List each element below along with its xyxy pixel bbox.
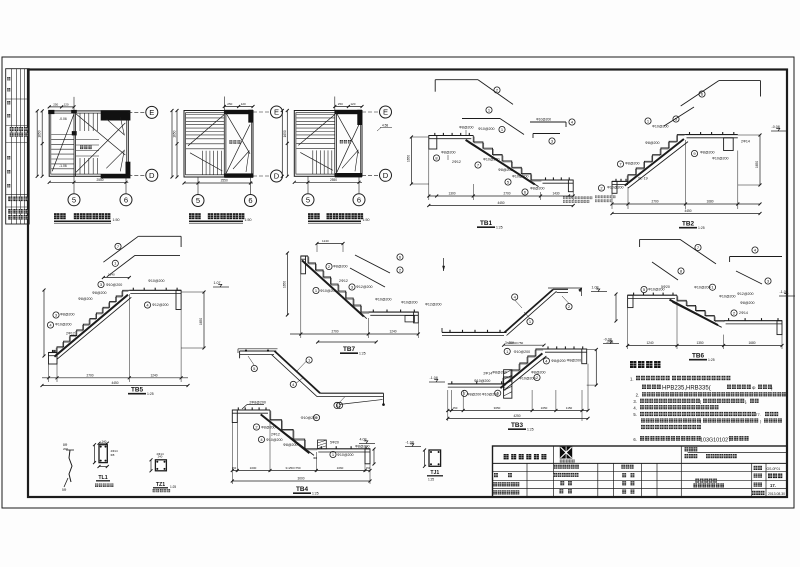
svg-text:1680: 1680	[748, 341, 755, 345]
svg-text:2Φ8@200: 2Φ8@200	[249, 400, 266, 404]
svg-text:E: E	[383, 108, 388, 117]
plan landing lines	[186, 138, 224, 140]
svg-text:Φ8@200: Φ8@200	[467, 392, 482, 396]
plan columns (filled)	[224, 110, 253, 114]
svg-text:5: 5	[72, 195, 76, 204]
svg-text:SL-19: SL-19	[638, 177, 648, 181]
TB6 level mark	[779, 295, 795, 297]
svg-text:-1.06: -1.06	[59, 164, 67, 168]
grid bubble E	[271, 106, 283, 118]
svg-text:Φ10@200: Φ10@200	[55, 323, 72, 327]
svg-text:Φ10@200: Φ10@200	[375, 298, 392, 302]
TB5 rebar diagram lower	[107, 255, 135, 276]
svg-text:1060: 1060	[337, 466, 344, 470]
svg-text:5Φ: 5Φ	[62, 488, 67, 492]
svg-text:1000: 1000	[250, 466, 257, 470]
svg-text:Φ10@200: Φ10@200	[514, 350, 531, 354]
grid line D	[362, 174, 379, 176]
svg-text:-1.08: -1.08	[406, 440, 414, 444]
svg-text:250: 250	[338, 102, 343, 106]
plan treads lower flight	[312, 150, 314, 174]
svg-text:1240: 1240	[108, 273, 115, 277]
plan left dimension	[176, 111, 178, 178]
svg-text:],: ],	[745, 399, 747, 404]
svg-text:Φ8@200: Φ8@200	[530, 187, 545, 191]
svg-text:Φ10@200: Φ10@200	[106, 283, 123, 287]
grid line 5	[73, 176, 75, 193]
plan cross diagonals right room	[337, 114, 359, 154]
svg-text:Φ10@200: Φ10@200	[474, 379, 491, 383]
plan title	[189, 213, 195, 219]
svg-text:103G101027: 103G101027	[700, 437, 731, 443]
TB1 rebar diagram line A	[435, 79, 478, 81]
plan stair divider	[73, 111, 75, 176]
svg-text:1150: 1150	[566, 406, 573, 410]
plan title	[54, 213, 60, 219]
svg-text:2550: 2550	[221, 179, 228, 183]
svg-text:2Φ12: 2Φ12	[452, 160, 461, 164]
svg-text:Φ10@200: Φ10@200	[719, 295, 736, 299]
Z1 bottom dashes	[449, 330, 451, 332]
svg-text:Φ10@200: Φ10@200	[694, 286, 711, 290]
svg-text:Φ8@200: Φ8@200	[625, 162, 640, 166]
title block project name	[695, 479, 699, 483]
TB2 rebar diagram second	[664, 107, 694, 126]
svg-text:1:25: 1:25	[708, 358, 715, 362]
grid line D	[128, 174, 145, 176]
grid line 5	[197, 177, 199, 194]
plan outer walls	[49, 111, 128, 176]
svg-text:Φ8@200: Φ8@200	[567, 358, 582, 362]
notes line 1b	[642, 385, 646, 389]
outer drawing border	[2, 57, 794, 508]
TB1 mid-landing rebar C	[530, 121, 566, 123]
TB3 right dimension	[595, 350, 597, 386]
plan treads left flight upper	[296, 114, 335, 116]
plan bottom dimension	[49, 181, 128, 183]
Z1 top rebar hook	[548, 287, 582, 289]
svg-text:120: 120	[350, 102, 355, 106]
TB4 rebar label top	[247, 404, 264, 406]
section TB7 stair slab	[301, 255, 308, 257]
Z1 callouts	[512, 294, 518, 300]
section TB3 stair slab	[448, 383, 504, 385]
svg-text:120: 120	[64, 102, 69, 106]
svg-text:Φ8@200: Φ8@200	[740, 301, 755, 305]
TB5 left dimension	[43, 290, 45, 356]
detail TJ1 section	[429, 450, 441, 466]
svg-text:1240: 1240	[322, 239, 329, 243]
plan bottom dimension	[184, 182, 253, 184]
svg-text:2550: 2550	[330, 178, 337, 182]
plan columns (filled)	[335, 110, 362, 114]
svg-text:Φ8@200: Φ8@200	[498, 168, 513, 172]
svg-text:2Φ12: 2Φ12	[271, 432, 280, 436]
grid line 5	[307, 176, 309, 193]
binding strip table	[6, 69, 30, 224]
svg-text:D: D	[149, 171, 155, 180]
TB7 base block	[405, 316, 414, 322]
TB1 rebar diagram line B	[462, 118, 500, 120]
grid line E	[253, 111, 270, 113]
svg-text:HPB235,HRB335(: HPB235,HRB335(	[662, 386, 711, 392]
notes line 5c	[641, 425, 645, 429]
svg-text:3×250=750: 3×250=750	[508, 341, 524, 345]
grid line 6	[250, 177, 252, 194]
grid bubble E	[146, 106, 158, 118]
svg-text:1240: 1240	[646, 341, 653, 345]
svg-text:6: 6	[124, 195, 128, 204]
TJ1 level mark	[405, 446, 421, 448]
svg-text:Φ10@200: Φ10@200	[519, 377, 536, 381]
svg-text:2013.08.30: 2013.08.30	[768, 492, 785, 496]
svg-text:4.08: 4.08	[360, 437, 367, 441]
svg-text:Φ10@200: Φ10@200	[266, 438, 283, 442]
TB6 rebar diagram left	[639, 239, 641, 247]
svg-text:Φ10@200: Φ10@200	[483, 158, 500, 162]
landing slab section Z1	[442, 331, 507, 333]
svg-text:TB1: TB1	[480, 220, 493, 227]
TB3 hatched wall	[504, 370, 512, 399]
TB4 hatched block	[318, 440, 327, 449]
svg-text:1650: 1650	[199, 318, 203, 325]
svg-text:1:25: 1:25	[170, 485, 176, 489]
svg-text:1:50: 1:50	[363, 218, 370, 222]
plan treads lower flight	[201, 151, 203, 175]
svg-text:1.: 1.	[630, 376, 634, 381]
svg-text:TB7: TB7	[343, 346, 356, 353]
svg-text:1350: 1350	[696, 341, 703, 345]
svg-text:Φ8@200: Φ8@200	[261, 426, 276, 430]
svg-text:1650: 1650	[755, 161, 759, 168]
svg-text:4450: 4450	[497, 201, 504, 205]
TB4 bottom dimension	[231, 423, 233, 485]
svg-text:D: D	[274, 172, 280, 181]
plan top dimension	[224, 106, 253, 108]
svg-text:Φ12@200: Φ12@200	[356, 285, 373, 289]
svg-text:2700: 2700	[503, 192, 510, 196]
grid bubble 6	[245, 195, 257, 207]
svg-text:1:25: 1:25	[359, 351, 366, 355]
grid bubble 5	[68, 194, 80, 206]
plan landing lines	[76, 139, 99, 141]
svg-text:Φ8: Φ8	[313, 456, 317, 460]
TB6 bottom dimension	[627, 308, 629, 349]
svg-text:-1.08: -1.08	[430, 376, 438, 380]
section TB4 stair slab	[232, 409, 270, 411]
svg-text:Φ8@200: Φ8@200	[645, 141, 660, 145]
svg-text:1:25: 1:25	[698, 226, 705, 230]
section TB6 stair slab	[628, 294, 677, 296]
svg-text:Φ: Φ	[752, 385, 756, 390]
plan flight arrow left	[52, 114, 74, 171]
svg-text:Φ8: Φ8	[111, 453, 115, 457]
svg-text:Φ12@200: Φ12@200	[152, 303, 169, 307]
plan treads left flight upper	[186, 114, 224, 116]
svg-text:-0.08: -0.08	[604, 337, 612, 341]
title block middle labels	[554, 465, 558, 469]
svg-text:Φ8@200: Φ8@200	[492, 371, 507, 375]
TB4 level mark	[359, 443, 375, 445]
grid line 6	[358, 176, 360, 193]
svg-text:2Φ14: 2Φ14	[739, 311, 748, 315]
svg-text:Φ8@200: Φ8@200	[700, 151, 715, 155]
svg-text:1650: 1650	[283, 281, 287, 288]
title block outer	[493, 446, 788, 497]
svg-text:TB4: TB4	[296, 486, 309, 493]
landing slab section Z2	[240, 350, 277, 352]
svg-text:2Φ14: 2Φ14	[483, 371, 492, 375]
svg-text:4.58: 4.58	[382, 124, 388, 128]
svg-text:120: 120	[241, 102, 246, 106]
svg-text:1.08: 1.08	[592, 285, 599, 289]
svg-text:Φ10@200: Φ10@200	[652, 125, 669, 129]
TB3 level mark left	[429, 381, 445, 383]
svg-text:E: E	[149, 108, 154, 117]
svg-text:5: 5	[196, 196, 200, 205]
svg-text:4450: 4450	[684, 209, 691, 213]
svg-text:1:25: 1:25	[428, 478, 434, 482]
svg-text:2Φ12: 2Φ12	[66, 332, 75, 336]
grid line E	[128, 111, 145, 113]
TB2 landing beam block	[724, 138, 734, 151]
plan stair divider	[334, 111, 336, 177]
plan top dimension	[49, 106, 74, 108]
plan flight arrow	[298, 115, 335, 146]
svg-text:1:25: 1:25	[312, 491, 319, 495]
svg-text:2550: 2550	[96, 178, 103, 182]
svg-text:150: 150	[453, 406, 458, 410]
TB5 bottom dimension	[48, 364, 50, 382]
svg-text:1650: 1650	[283, 130, 287, 137]
TB7 bottom dimension	[300, 274, 302, 338]
plan flight arrow	[188, 115, 224, 146]
svg-text:1240: 1240	[150, 373, 157, 377]
svg-text:1:25: 1:25	[527, 427, 534, 431]
grid line D	[253, 175, 270, 177]
notes line 5b	[641, 418, 645, 422]
svg-text:3000: 3000	[297, 477, 304, 481]
TB4 leader line 3	[340, 400, 383, 405]
svg-text:Φ8@200: Φ8@200	[60, 313, 75, 317]
svg-text:2700: 2700	[651, 200, 658, 204]
grid line 6	[125, 176, 127, 193]
svg-text:6: 6	[357, 195, 361, 204]
plan cross diagonals right room	[76, 114, 125, 155]
svg-text:5Φ20: 5Φ20	[661, 285, 670, 289]
svg-text:Φ8@200: Φ8@200	[333, 265, 348, 269]
svg-text:Φ8@200: Φ8@200	[459, 126, 474, 130]
svg-text:Φ10@200: Φ10@200	[320, 289, 337, 293]
title block horizontal lines	[688, 452, 787, 454]
svg-text:250: 250	[227, 102, 232, 106]
svg-text:TZ1: TZ1	[156, 482, 165, 488]
svg-text:2Φ14: 2Φ14	[503, 382, 507, 390]
svg-text:1650: 1650	[38, 130, 42, 137]
grid bubble D	[271, 170, 283, 182]
TB1 left dimension	[410, 137, 412, 184]
TB5 level mark	[213, 286, 229, 288]
plan treads mid flight upper	[79, 113, 81, 131]
svg-text:Φ8@200: Φ8@200	[283, 443, 298, 447]
plan stair divider	[223, 111, 225, 178]
svg-text:6.: 6.	[633, 437, 637, 442]
svg-text:Φ10@200: Φ10@200	[607, 186, 624, 190]
title block logo	[560, 447, 572, 459]
svg-text:TL1: TL1	[98, 475, 107, 481]
svg-text:2700: 2700	[86, 373, 93, 377]
svg-text:1:50: 1:50	[113, 218, 120, 222]
grid bubble 5	[192, 195, 204, 207]
svg-text:2Φ12: 2Φ12	[339, 279, 348, 283]
svg-text:Φ10@200: Φ10@200	[401, 301, 418, 305]
TB2 rebar diagram top	[681, 81, 719, 106]
grid bubble 6	[120, 194, 132, 206]
svg-text:Φ8@200: Φ8@200	[355, 444, 370, 448]
svg-text:2700: 2700	[331, 330, 338, 334]
title block seal cell text	[504, 454, 509, 459]
svg-text:1650: 1650	[173, 130, 177, 137]
plan columns (filled)	[48, 110, 54, 114]
TB1 note text	[563, 197, 565, 200]
svg-text:1650: 1650	[407, 155, 411, 162]
svg-text:5: 5	[306, 195, 310, 204]
grid bubble D	[146, 169, 158, 181]
svg-text:2Φ14: 2Φ14	[741, 140, 750, 144]
svg-text:Φ10@200: Φ10@200	[712, 157, 729, 161]
grid bubble E	[380, 106, 392, 118]
plan outer walls	[184, 111, 253, 178]
grid bubble D	[380, 169, 392, 181]
TB1 mid-landing rebar D	[533, 133, 560, 135]
svg-text:5.: 5.	[633, 412, 637, 417]
svg-text:150: 150	[232, 466, 237, 470]
svg-text:TB3: TB3	[511, 422, 524, 429]
svg-text:4450: 4450	[111, 381, 118, 385]
section TB5 stair slab	[49, 352, 58, 354]
title block owner rows	[685, 447, 689, 451]
svg-text:3×250=750: 3×250=750	[285, 466, 301, 470]
svg-text:3.: 3.	[633, 399, 637, 404]
svg-text:TB2: TB2	[682, 221, 695, 228]
plan title	[308, 213, 314, 219]
TB2 stub level arrow	[443, 258, 445, 271]
svg-text:4Φ14: 4Φ14	[156, 452, 164, 456]
svg-text:1680: 1680	[706, 200, 713, 204]
svg-text:250: 250	[53, 102, 58, 106]
TB6 left dimension	[615, 294, 617, 321]
TB7 rebar diagrams	[355, 255, 390, 273]
plan treads left flight	[51, 134, 74, 136]
plan top dimension	[335, 106, 362, 108]
svg-text:Φ8@200: Φ8@200	[531, 370, 546, 374]
svg-text:1.07: 1.07	[214, 281, 221, 285]
plan bottom dimension	[294, 181, 362, 183]
svg-text:Φ8@200: Φ8@200	[92, 291, 107, 295]
TB7 left dimension	[286, 253, 288, 315]
svg-text:2.: 2.	[636, 393, 640, 398]
svg-text:1240: 1240	[389, 330, 396, 334]
svg-text:6: 6	[248, 196, 252, 205]
plan landing lines	[296, 137, 335, 139]
svg-text:1430: 1430	[552, 192, 559, 196]
TB2 level mark	[771, 130, 787, 132]
svg-text:1050: 1050	[541, 406, 548, 410]
svg-text:Φ10@200: Φ10@200	[512, 175, 529, 179]
svg-text:5Φ20: 5Φ20	[330, 441, 339, 445]
TB5 top small dimension	[103, 277, 129, 279]
svg-text:Φ10@200: Φ10@200	[536, 118, 551, 122]
grid line E	[362, 111, 379, 113]
TB3 bottom dimension	[447, 390, 449, 421]
title block right column	[754, 466, 758, 470]
svg-text:Φ10@200: Φ10@200	[148, 279, 165, 283]
TB2 right dimension	[759, 135, 761, 185]
svg-text:Φ12@200: Φ12@200	[737, 292, 754, 296]
svg-text:-0.08: -0.08	[772, 125, 780, 129]
svg-text:4250: 4250	[513, 414, 520, 418]
plan outer walls	[294, 111, 362, 177]
svg-text:-1.08: -1.08	[780, 290, 788, 294]
TB1 bottom dimension	[428, 149, 430, 200]
title block vertical lines	[526, 463, 528, 497]
binding strip text rows	[7, 77, 10, 80]
svg-text:17.: 17.	[770, 483, 776, 488]
detail TL1 section	[99, 445, 107, 463]
plan left dimension	[41, 111, 43, 176]
svg-text:TB5: TB5	[131, 387, 144, 394]
svg-text:4.: 4.	[633, 405, 637, 410]
svg-text:1:25: 1:25	[147, 392, 154, 396]
svg-text:GS-0F01: GS-0F01	[767, 467, 781, 471]
design notes header	[630, 361, 636, 368]
detail TZ1 section	[155, 460, 166, 471]
svg-text:T7.: T7.	[755, 412, 761, 417]
plan left dimension	[286, 111, 288, 177]
svg-text:TJ1: TJ1	[430, 470, 439, 476]
svg-text:Φ10@200: Φ10@200	[478, 127, 495, 131]
svg-text:Φ8@200: Φ8@200	[441, 151, 456, 155]
svg-text:3050: 3050	[494, 406, 501, 410]
section TB1 stair slab	[429, 135, 474, 137]
svg-text:-0.06: -0.06	[59, 117, 67, 121]
svg-text:1:50: 1:50	[245, 218, 252, 222]
svg-text:1:25: 1:25	[496, 225, 503, 229]
TB2 bottom dimension	[611, 193, 613, 209]
svg-text:Φ10@200: Φ10@200	[337, 453, 354, 457]
TB7 top dimension	[317, 243, 343, 245]
inner drawing frame	[28, 70, 787, 498]
svg-text:Φ8@200: Φ8@200	[551, 359, 566, 363]
grid bubble 6	[353, 194, 365, 206]
svg-text:D: D	[383, 171, 389, 180]
TB5 right dimension	[203, 292, 205, 348]
svg-text:150: 150	[366, 466, 371, 470]
TB5 rebar diagram upper	[103, 236, 138, 262]
plan cross diagonals right room	[226, 114, 250, 154]
TB2 note text	[595, 196, 597, 199]
plan treads mid flight lower	[79, 158, 81, 174]
svg-text:TB6: TB6	[692, 353, 705, 360]
svg-text:1300: 1300	[448, 192, 455, 196]
Z2 top rebar hook	[238, 348, 278, 350]
Z2 callouts	[251, 365, 257, 371]
section TB2 stair slab	[612, 180, 628, 182]
TB3 top dimension	[504, 344, 544, 346]
svg-text:Φ8@200: Φ8@200	[78, 297, 93, 301]
svg-text:E: E	[274, 108, 279, 117]
svg-text:Φ12@200: Φ12@200	[425, 303, 442, 307]
